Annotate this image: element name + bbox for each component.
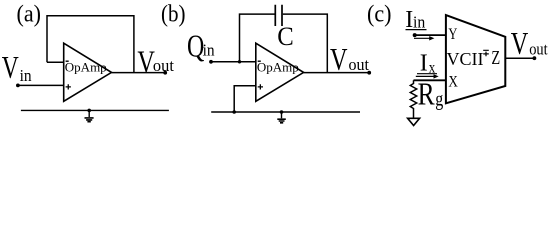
svg-text:X: X [448,74,458,91]
svg-text:Z: Z [491,47,500,69]
svg-text:out: out [349,55,370,74]
svg-text:g: g [435,86,443,110]
svg-text:(c): (c) [367,2,392,28]
svg-text:VCII: VCII [447,49,484,69]
svg-text:V: V [511,26,529,61]
svg-text:(b): (b) [161,2,186,28]
svg-text:(a): (a) [17,2,42,28]
svg-text:OpAmp: OpAmp [257,59,299,74]
svg-text:OpAmp: OpAmp [65,59,107,74]
svg-text:out: out [529,40,548,59]
svg-text:C: C [277,21,294,51]
svg-text:V: V [2,50,19,85]
svg-text:in: in [413,13,426,32]
svg-text:R: R [418,77,435,112]
svg-text:in: in [203,40,215,59]
svg-text:out: out [153,56,174,75]
svg-text:V: V [330,42,348,77]
svg-text:in: in [20,66,32,85]
svg-text:I: I [420,51,428,77]
svg-text:Y: Y [448,26,457,43]
